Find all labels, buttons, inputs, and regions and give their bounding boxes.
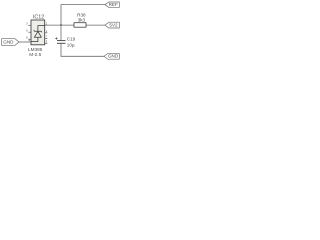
svg-text:IC12: IC12 (33, 15, 44, 21)
svg-text:3k3: 3k3 (78, 17, 86, 22)
svg-text:5V2: 5V2 (109, 23, 118, 28)
svg-text:REF: REF (109, 2, 118, 7)
svg-text:M-2.5: M-2.5 (29, 52, 41, 57)
svg-text:C19: C19 (67, 37, 76, 42)
svg-text:GND: GND (108, 54, 119, 59)
svg-text:10µ: 10µ (67, 43, 75, 48)
svg-text:GND: GND (3, 40, 14, 45)
